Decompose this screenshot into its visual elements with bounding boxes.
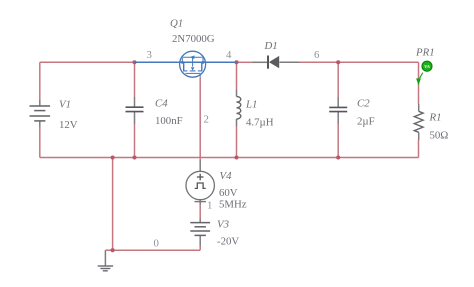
svg-text:4: 4 — [226, 49, 232, 61]
svg-text:C4: C4 — [155, 98, 168, 110]
svg-text:12V: 12V — [59, 119, 78, 131]
svg-text:60V: 60V — [219, 187, 238, 199]
svg-text:C2: C2 — [357, 98, 370, 110]
svg-text:2µF: 2µF — [357, 116, 375, 128]
svg-text:Q1: Q1 — [170, 18, 183, 30]
svg-text:L1: L1 — [245, 99, 257, 111]
svg-text:2: 2 — [204, 114, 209, 126]
svg-text:5MHz: 5MHz — [219, 199, 247, 211]
svg-text:4.7µH: 4.7µH — [246, 117, 274, 129]
svg-text:2N7000G: 2N7000G — [172, 33, 215, 45]
svg-text:V1: V1 — [59, 99, 71, 111]
svg-text:0: 0 — [154, 238, 159, 250]
svg-text:6: 6 — [314, 49, 320, 61]
svg-text:100nF: 100nF — [155, 115, 183, 127]
svg-text:3: 3 — [147, 49, 152, 61]
svg-text:1: 1 — [207, 200, 212, 212]
svg-text:-20V: -20V — [217, 236, 239, 248]
svg-text:VA: VA — [424, 64, 430, 69]
svg-text:50Ω: 50Ω — [430, 130, 449, 142]
svg-text:PR1: PR1 — [415, 47, 435, 59]
svg-text:V4: V4 — [220, 170, 233, 182]
svg-text:V3: V3 — [217, 219, 230, 231]
svg-text:R1: R1 — [429, 112, 442, 124]
svg-text:D1: D1 — [264, 40, 278, 52]
